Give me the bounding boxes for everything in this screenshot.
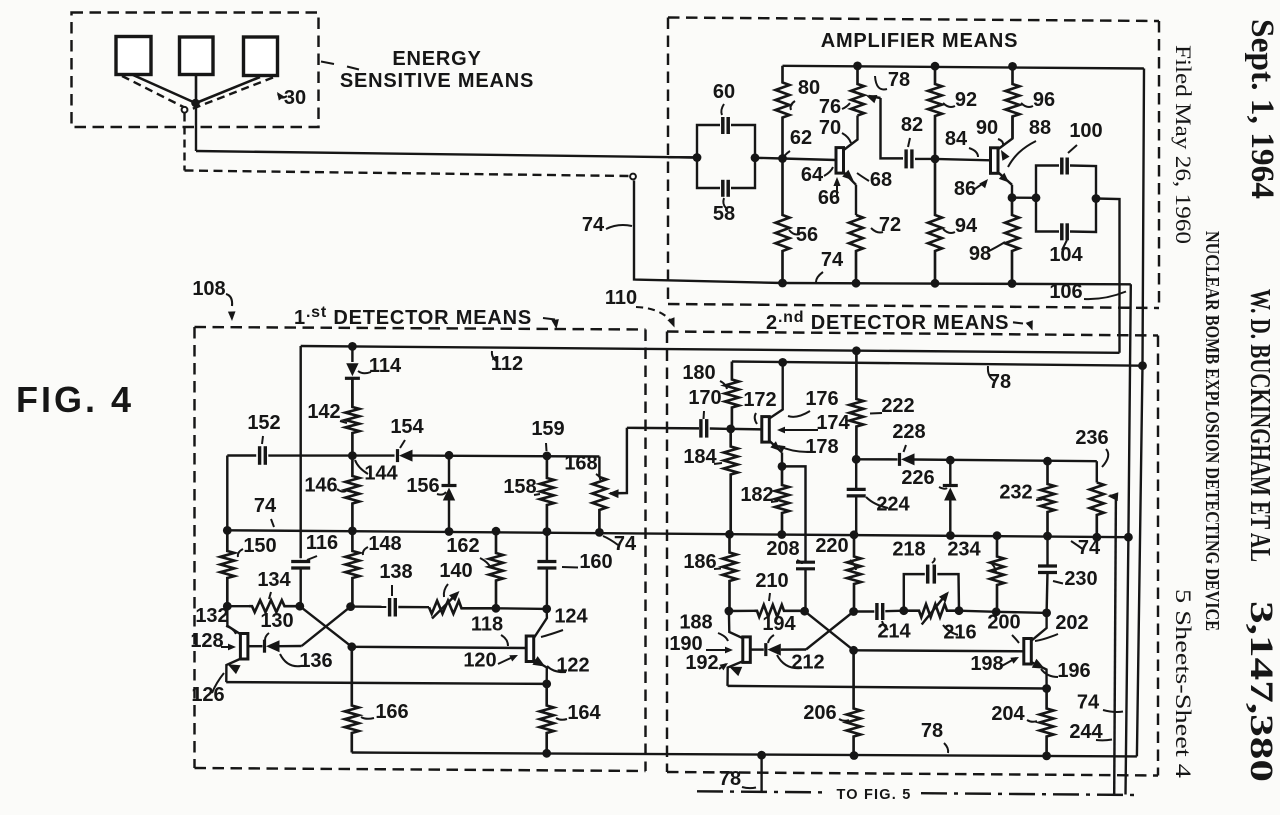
label 96 — [1021, 89, 1055, 111]
svg-text:Sept. 1, 1964: Sept. 1, 1964 — [1244, 19, 1280, 199]
label 78 below box — [719, 768, 756, 790]
svg-text:160: 160 — [579, 551, 612, 573]
resistor 96 — [1006, 66, 1020, 138]
svg-text:74: 74 — [582, 214, 605, 236]
wire row to 234 node — [959, 611, 996, 612]
transistor 196 emitter — [1031, 659, 1047, 689]
svg-text:228: 228 — [892, 421, 925, 443]
label 78 rail — [988, 366, 1011, 393]
svg-text:94: 94 — [955, 215, 978, 237]
capacitor 58 — [723, 180, 728, 197]
node row right X node — [346, 602, 355, 611]
margin text 3147380 — [1243, 601, 1279, 782]
svg-text:166: 166 — [375, 701, 408, 723]
capacitor 152 — [260, 446, 266, 465]
transistor 90 emitter — [997, 171, 1012, 197]
node row left X node — [295, 602, 304, 611]
node resistor 72 bottom — [852, 279, 861, 288]
svg-text:106: 106 — [1049, 281, 1082, 303]
label 224 — [866, 494, 911, 516]
capacitor 218 — [928, 565, 935, 584]
svg-text:ENERGY: ENERGY — [392, 48, 481, 70]
svg-text:98: 98 — [969, 243, 991, 265]
margin text 5 Sheets-Sheet 4 — [1171, 589, 1196, 778]
svg-text:196: 196 — [1057, 660, 1090, 682]
svg-text:156: 156 — [406, 475, 439, 497]
label 136 — [280, 650, 333, 672]
svg-text:186: 186 — [683, 551, 716, 573]
svg-text:134: 134 — [257, 569, 291, 591]
svg-text:234: 234 — [947, 539, 981, 561]
resistor 184 — [724, 429, 738, 534]
transistor 172 collector — [769, 362, 783, 419]
label 206 — [803, 702, 849, 724]
resistor 56 — [776, 159, 790, 284]
node X lower right FF2 — [849, 646, 858, 655]
svg-text:176: 176 — [805, 388, 838, 410]
label 74 right rail — [1071, 537, 1101, 559]
potentiometer 168 wiper — [608, 428, 627, 498]
wire cap 138 to pot 140 — [398, 606, 429, 609]
dashed enclosure: 1st detector means — [195, 327, 646, 771]
capacitor 218 bridge — [904, 574, 959, 611]
title 1st DETECTOR MEANS — [294, 304, 559, 329]
capacitor 170 — [701, 419, 731, 438]
label 118 — [471, 614, 508, 647]
resistor 206 — [847, 650, 861, 755]
svg-text:74: 74 — [821, 249, 844, 271]
label 58 — [713, 198, 735, 225]
dashed enclosure: energy sensitive means — [72, 13, 319, 128]
label 178 — [777, 436, 839, 458]
resistor 134 — [249, 600, 300, 612]
dashed enclosure: amplifier means — [668, 18, 1159, 309]
svg-text:NUCLEAR BOMB EXPLOSION DETECTI: NUCLEAR BOMB EXPLOSION DETECTING DEVICE — [1201, 231, 1223, 631]
node cap pair output — [751, 153, 760, 162]
svg-text:118: 118 — [471, 614, 503, 636]
wire rail 74 first+second detector — [227, 530, 1128, 537]
capacitor 138 — [390, 598, 396, 617]
wire from photocell 3 to junction — [196, 77, 260, 103]
node row left X node FF2 — [800, 607, 809, 616]
title ENERGY SENSITIVE MEANS — [340, 48, 534, 92]
wire emitter to cap pair 100/104 — [1012, 196, 1036, 199]
label 70 — [819, 117, 851, 143]
svg-text:204: 204 — [991, 703, 1025, 725]
svg-text:138: 138 — [379, 561, 412, 583]
resistor 80 — [776, 66, 790, 159]
svg-text:222: 222 — [881, 395, 914, 417]
svg-text:132: 132 — [195, 605, 228, 627]
resistor 150 — [220, 530, 234, 606]
leader dashes to title — [321, 62, 359, 70]
node resistor 98 bottom — [1008, 279, 1017, 288]
svg-text:90: 90 — [976, 117, 998, 139]
svg-text:128: 128 — [190, 630, 223, 652]
transistor 172 base bar — [731, 417, 770, 443]
resistor 148 — [345, 531, 359, 607]
transistor 90 base bar — [935, 148, 998, 174]
label 30 — [277, 87, 306, 109]
wire 152 row — [227, 454, 394, 457]
wire bottom supply 78 — [352, 753, 1137, 757]
node rail74 at 234 — [993, 531, 1002, 540]
node 156 bottom — [445, 527, 454, 536]
node row right end FF2 — [1042, 609, 1051, 618]
potentiometer 236 wiper — [1108, 492, 1119, 794]
svg-text:112: 112 — [491, 353, 523, 375]
node open circle return junction — [182, 107, 188, 113]
node cap pair 100 output — [1092, 194, 1101, 203]
svg-text:206: 206 — [803, 702, 836, 724]
svg-text:3,147,380: 3,147,380 — [1243, 601, 1279, 782]
wire 228 row — [856, 459, 1097, 461]
cross wire 2 (base left to collector right) — [302, 607, 351, 646]
resistor 158 — [540, 456, 554, 531]
transistor 118 collector — [534, 609, 547, 639]
cross wire 1 (collector left to base right) — [300, 606, 352, 647]
svg-text:136: 136 — [299, 650, 332, 672]
svg-text:92: 92 — [955, 89, 977, 111]
label 142 — [307, 401, 347, 423]
transistor 70 base bar — [783, 148, 844, 174]
svg-text:62: 62 — [790, 127, 812, 149]
label 76 — [819, 96, 850, 118]
potentiometer 236 — [1090, 461, 1104, 537]
svg-text:194: 194 — [762, 613, 796, 635]
resistor 162 — [489, 531, 503, 608]
node rail78 at line C — [1138, 361, 1147, 370]
node emitter FF1 right — [542, 680, 551, 689]
transistor 196 collector — [1031, 613, 1047, 641]
node 218 right — [955, 606, 964, 615]
resistor 98 — [1005, 198, 1019, 284]
label 236 — [1075, 427, 1108, 467]
label 162 — [446, 535, 491, 568]
resistor 220 — [847, 535, 861, 612]
svg-text:152: 152 — [247, 412, 280, 434]
wire rail 112 — [301, 346, 1120, 353]
potentiometer 168 — [592, 457, 606, 533]
resistor 204 — [1040, 689, 1054, 756]
wire row to cap 214 — [854, 610, 875, 612]
node 62 — [778, 154, 787, 163]
resistor 94 — [928, 159, 942, 283]
node 144 junction — [348, 451, 357, 460]
label 160 — [562, 551, 613, 573]
potentiometer 216 — [904, 604, 959, 617]
svg-text:208: 208 — [766, 538, 799, 560]
svg-text:74: 74 — [254, 495, 277, 517]
label 90 — [976, 117, 1010, 161]
svg-text:172: 172 — [743, 389, 776, 411]
label 180 — [682, 362, 727, 389]
svg-text:226: 226 — [901, 467, 934, 489]
svg-text:W. D. BUCKINGHAM ET AL: W. D. BUCKINGHAM ET AL — [1244, 289, 1275, 562]
label 194 — [762, 613, 796, 643]
node rail74 left end — [223, 526, 232, 535]
node 150 bottom — [223, 602, 232, 611]
label 114 — [358, 355, 402, 377]
svg-text:5 Sheets-Sheet 4: 5 Sheets-Sheet 4 — [1171, 589, 1196, 778]
wire signal lead down from junction — [195, 103, 197, 151]
capacitor pair frame 100/104 — [1036, 166, 1096, 233]
svg-text:78: 78 — [989, 371, 1011, 393]
svg-text:216: 216 — [943, 622, 976, 644]
svg-text:1.st DETECTOR MEANS: 1.st DETECTOR MEANS — [294, 304, 532, 329]
node 232 top — [1043, 457, 1052, 466]
dashed return from photocell 3 — [188, 78, 273, 111]
label 159 — [531, 418, 564, 451]
label 74 pot168 — [603, 533, 637, 555]
wire row to collector node FF2 — [996, 612, 1046, 613]
svg-text:108: 108 — [192, 278, 225, 300]
node 186 bottom — [725, 607, 734, 616]
label 232 — [999, 482, 1042, 504]
wire pot 168 wiper to 2nd detector — [627, 427, 699, 430]
wire 78 drop to fig 5 — [760, 755, 762, 792]
svg-text:232: 232 — [999, 482, 1032, 504]
dashed return lead down — [183, 114, 185, 171]
svg-text:140: 140 — [439, 560, 472, 582]
wire top rail 78 (amplifier) — [783, 66, 1145, 69]
wire amplifier output down (line A) — [1096, 199, 1120, 353]
capacitor 214 — [877, 603, 883, 620]
label 150 — [238, 535, 277, 557]
label 228 — [892, 421, 925, 452]
svg-text:174: 174 — [816, 412, 850, 434]
label 112 — [491, 351, 523, 375]
wire emitter rail FF2 — [728, 686, 1047, 689]
wire 74 drop to amplifier common — [634, 181, 783, 284]
wire base right FF2 — [854, 650, 1024, 651]
dashed return from photocell 1 — [122, 76, 185, 108]
potentiometer 76 — [851, 66, 864, 116]
resistor 166 — [345, 647, 359, 753]
margin text Filed May 26 1960 — [1171, 45, 1196, 244]
svg-text:78: 78 — [719, 768, 741, 790]
svg-text:122: 122 — [556, 655, 589, 677]
svg-text:184: 184 — [683, 446, 717, 468]
svg-text:188: 188 — [679, 612, 712, 634]
svg-text:86: 86 — [954, 178, 976, 200]
node resistor 158 top — [543, 452, 552, 461]
node 162 top — [492, 527, 501, 536]
label 188 — [679, 612, 728, 642]
svg-text:64: 64 — [801, 164, 824, 186]
node rail74 at 230 — [1043, 532, 1052, 541]
svg-text:168: 168 — [564, 453, 597, 475]
node resistor 56 bottom — [778, 279, 787, 288]
svg-text:114: 114 — [369, 355, 402, 377]
node rail74 at 182 — [777, 530, 786, 539]
label 230 — [1053, 568, 1098, 590]
photocell 3 — [244, 37, 278, 76]
potentiometer 76 wiper — [866, 95, 903, 158]
label 198 — [970, 653, 1019, 675]
svg-text:124: 124 — [554, 606, 588, 628]
resistor 186 — [723, 534, 737, 611]
label 196 — [1041, 660, 1091, 682]
resistor 210 — [755, 605, 805, 617]
node pot 76 top — [853, 62, 862, 71]
label 128 — [190, 630, 236, 652]
resistor 142 — [345, 378, 359, 455]
svg-text:100: 100 — [1069, 120, 1102, 142]
wire from photocell 1 to junction — [133, 75, 196, 103]
node bottom wire at 204 — [1042, 752, 1051, 761]
capacitor 230 — [1038, 536, 1057, 613]
transistor 190 base bar — [743, 637, 751, 663]
resistor 232 — [1041, 461, 1055, 536]
diode 226 — [943, 460, 958, 535]
node emitter 90 junction — [1008, 193, 1017, 202]
potentiometer 140 arrow — [432, 591, 460, 619]
node cap pair input — [693, 153, 702, 162]
svg-text:Filed May 26, 1960: Filed May 26, 1960 — [1171, 45, 1196, 244]
label 156 — [406, 475, 446, 497]
wire cap 214 to node 218L — [885, 610, 904, 613]
label 88 — [1008, 117, 1051, 167]
resistor 72 — [849, 215, 863, 283]
resistor 180 — [725, 362, 739, 429]
transistor 128 base bar — [240, 634, 248, 660]
title AMPLIFIER MEANS — [821, 30, 1019, 52]
svg-text:2.nd DETECTOR MEANS: 2.nd DETECTOR MEANS — [766, 309, 1009, 334]
node 160 top — [543, 527, 552, 536]
label 82 — [901, 114, 923, 147]
label 148 — [363, 533, 402, 555]
svg-text:82: 82 — [901, 114, 923, 136]
node resistor 92 top — [931, 62, 940, 71]
label 182 — [740, 484, 778, 506]
capacitor 208 — [796, 562, 815, 611]
wire rail 78 second detector — [732, 362, 1143, 366]
label 98 — [969, 242, 1005, 265]
wire cap pair to node 62 — [755, 157, 783, 160]
label 172 — [743, 389, 776, 424]
diode 154 — [398, 449, 600, 462]
label 110 — [605, 287, 675, 328]
node cap pair 100 input — [1032, 193, 1041, 202]
transistor 196 base bar — [1024, 639, 1032, 665]
svg-text:158: 158 — [503, 476, 536, 498]
wire cap152 branch down — [226, 456, 228, 552]
svg-text:192: 192 — [685, 652, 718, 674]
label 210 — [755, 570, 788, 601]
label 212 — [777, 652, 825, 674]
label 130 — [260, 610, 293, 640]
label 56 — [789, 224, 818, 246]
label 226 — [901, 467, 947, 489]
label 138 — [379, 561, 412, 596]
diode 130/136 — [248, 640, 302, 653]
node rail74 at 186 — [725, 530, 734, 539]
label 140 — [439, 560, 472, 597]
label 66 — [818, 177, 841, 209]
svg-text:224: 224 — [876, 494, 910, 516]
svg-text:180: 180 — [682, 362, 715, 384]
label 60 — [713, 81, 735, 115]
node rail74 at 220 — [850, 530, 859, 539]
svg-text:154: 154 — [390, 416, 424, 438]
label 62 — [783, 127, 812, 159]
svg-text:60: 60 — [713, 81, 735, 103]
dashed enclosure: 2nd detector means — [667, 332, 1158, 776]
label 124 — [541, 606, 589, 638]
label 80 — [791, 77, 821, 110]
wire signal line to amplifier input — [196, 151, 697, 158]
node bottom wire to fig5 — [757, 751, 766, 760]
label 154 — [390, 416, 424, 448]
svg-text:TO FIG. 5: TO FIG. 5 — [837, 787, 912, 803]
transistor 128 emitter — [226, 659, 241, 683]
node junction of photocell leads — [191, 99, 200, 108]
node diode 156 top — [445, 451, 454, 460]
svg-text:212: 212 — [791, 652, 824, 674]
transistor 172 emitter — [769, 440, 783, 466]
label 120 — [463, 650, 518, 672]
svg-text:104: 104 — [1049, 244, 1083, 266]
label 106 — [1049, 281, 1126, 303]
capacitor pair frame 60/58 — [697, 125, 755, 188]
label 190 — [669, 633, 733, 655]
svg-text:178: 178 — [805, 436, 838, 458]
potentiometer 216 arrow — [922, 591, 949, 624]
label 216 — [943, 622, 977, 644]
diode 228 — [900, 453, 915, 466]
svg-text:84: 84 — [945, 128, 968, 150]
resistor 164 — [540, 684, 554, 753]
margin text W D BUCKINGHAM ET AL — [1244, 289, 1275, 562]
label 104 — [1049, 240, 1083, 266]
svg-text:202: 202 — [1055, 612, 1088, 634]
label 64 — [801, 164, 833, 186]
node emitter FF2 right — [1042, 684, 1051, 693]
dashed return line to node 74 — [185, 171, 630, 177]
svg-text:74: 74 — [1077, 692, 1100, 714]
capacitor 82 — [906, 149, 912, 168]
dash-dot line to fig 5 — [697, 791, 1137, 795]
label 86 — [954, 178, 988, 200]
wire 74 down right side (line B) — [1126, 284, 1131, 794]
svg-text:78: 78 — [888, 69, 910, 91]
wire 78 down right side (line C) — [1137, 69, 1144, 757]
label 134 — [257, 569, 291, 599]
resistor 222 — [849, 351, 863, 460]
label 144 — [355, 460, 399, 485]
resistor 92 — [928, 66, 942, 159]
node 218 left — [899, 606, 908, 615]
diode 194/212 — [750, 643, 806, 656]
transistor 90 collector — [997, 117, 1013, 151]
node 222 bottom — [852, 455, 861, 464]
svg-text:164: 164 — [567, 702, 601, 724]
transistor 118 base bar — [526, 636, 534, 662]
svg-text:70: 70 — [819, 117, 841, 139]
label 72 — [871, 214, 901, 236]
label 68 — [857, 169, 892, 191]
wire emitter rail FF1 — [226, 682, 547, 684]
label 244 — [1069, 721, 1112, 743]
node X lower right — [347, 642, 356, 651]
svg-text:68: 68 — [870, 169, 892, 191]
label 170 — [688, 387, 721, 419]
svg-text:230: 230 — [1064, 568, 1097, 590]
wire cap 82 to node 84 — [915, 158, 935, 160]
node emitter 172 junction — [778, 462, 787, 471]
svg-text:200: 200 — [987, 612, 1020, 634]
